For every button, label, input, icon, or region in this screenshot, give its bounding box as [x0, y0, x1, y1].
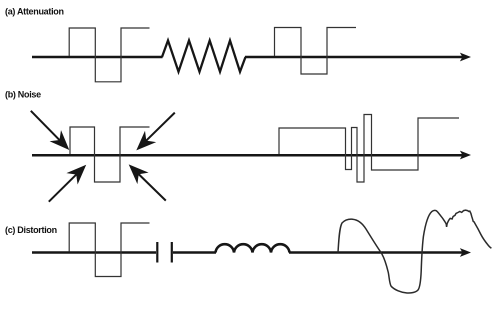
svg-text:(b) Noise: (b) Noise: [5, 90, 41, 100]
svg-text:(c) Distortion: (c) Distortion: [5, 225, 57, 235]
svg-text:(a) Attenuation: (a) Attenuation: [5, 7, 64, 17]
